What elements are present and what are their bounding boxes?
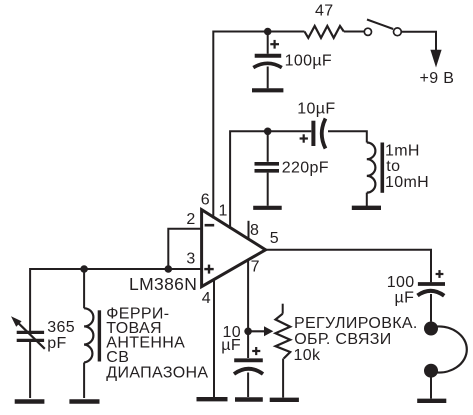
wire switch to +9V bbox=[401, 32, 436, 50]
wire pin 2 feedback bbox=[168, 229, 201, 269]
svg-text:ДИАПАЗОНА: ДИАПАЗОНА bbox=[106, 365, 208, 382]
jack terminal top bbox=[424, 322, 438, 336]
svg-text:6: 6 bbox=[201, 192, 210, 209]
op-amp minus sign bbox=[205, 224, 215, 227]
ground under C5 bbox=[235, 397, 263, 401]
svg-text:µF: µF bbox=[395, 290, 415, 307]
svg-text:10mH: 10mH bbox=[385, 174, 429, 191]
svg-text:100µF: 100µF bbox=[285, 53, 332, 70]
capacitor C2 220pF bbox=[255, 131, 280, 206]
wire pin 5 output bbox=[266, 250, 431, 283]
capacitor C1 100µF (decoupling) bbox=[253, 32, 281, 89]
wire resistor to switch bbox=[344, 31, 364, 33]
ground under L1 bbox=[69, 399, 99, 403]
antenna coil L1 bbox=[84, 269, 99, 398]
wire pin 4 to ground bbox=[213, 279, 215, 397]
ground under C2 bbox=[253, 206, 282, 210]
op-amp plus sign bbox=[204, 265, 213, 274]
svg-text:1: 1 bbox=[219, 203, 228, 220]
wire jack to ground bbox=[430, 371, 432, 399]
svg-text:µF: µF bbox=[221, 337, 241, 354]
svg-text:100: 100 bbox=[387, 274, 415, 291]
wire top rail V+ bbox=[213, 32, 304, 219]
wire C3 to L2 bbox=[328, 131, 367, 142]
node junction pin2/pin3 bbox=[165, 265, 173, 273]
op-amp U1 LM386N bbox=[202, 210, 266, 287]
wire pin1 to mid rail bbox=[230, 131, 311, 229]
jack terminal bottom bbox=[424, 364, 438, 378]
svg-text:3: 3 bbox=[186, 251, 195, 268]
wiper arrow bbox=[248, 326, 273, 336]
inductor L2 1mH-10mH bbox=[367, 143, 383, 207]
ground under jack bbox=[417, 399, 446, 403]
+9V supply arrow bbox=[430, 50, 441, 68]
node junction top rail / C1 bbox=[264, 28, 272, 36]
ground under R2 bbox=[270, 398, 299, 402]
capacitor C5 10µF (bypass) bbox=[234, 347, 263, 397]
svg-text:365: 365 bbox=[47, 319, 75, 336]
svg-text:220pF: 220pF bbox=[282, 159, 329, 176]
svg-text:7: 7 bbox=[251, 258, 260, 275]
svg-text:47: 47 bbox=[315, 3, 334, 20]
svg-text:2: 2 bbox=[186, 211, 195, 228]
resistor R1 47 bbox=[305, 26, 344, 38]
svg-text:8: 8 bbox=[250, 222, 259, 239]
svg-text:СВ: СВ bbox=[106, 349, 129, 366]
svg-text:LM386N: LM386N bbox=[129, 274, 197, 294]
node junction pin7 / wiper bbox=[244, 328, 252, 336]
node junction mid rail / C2 bbox=[264, 128, 272, 136]
ground under L2 bbox=[352, 206, 381, 210]
capacitor C3 10µF (coupling) bbox=[300, 119, 326, 149]
pin 8 stub bbox=[248, 221, 250, 240]
svg-text:to: to bbox=[386, 158, 400, 175]
svg-text:5: 5 bbox=[270, 230, 279, 247]
svg-text:+9 В: +9 В bbox=[420, 70, 455, 87]
svg-text:РЕГУЛИРОВКА.: РЕГУЛИРОВКА. bbox=[294, 315, 418, 332]
svg-text:10k: 10k bbox=[294, 347, 321, 364]
svg-text:ОБР. СВЯЗИ: ОБР. СВЯЗИ bbox=[294, 331, 391, 348]
ground under pin 4 bbox=[197, 397, 228, 401]
node junction antenna bbox=[80, 265, 88, 273]
wire pin 7 down bbox=[247, 260, 249, 358]
ground under C4 bbox=[15, 399, 45, 403]
capacitor C6 100µF (output) bbox=[418, 270, 446, 321]
ground under C1 bbox=[252, 88, 283, 92]
wire left rail pin 3 bbox=[30, 269, 202, 331]
switch S1 bbox=[364, 20, 401, 36]
svg-text:4: 4 bbox=[202, 290, 211, 307]
jack arc bbox=[433, 327, 467, 373]
potentiometer R2 10k bbox=[276, 304, 291, 398]
svg-text:pF: pF bbox=[47, 335, 66, 352]
svg-text:10µF: 10µF bbox=[297, 100, 335, 117]
variable capacitor C4 365pF bbox=[11, 316, 45, 398]
